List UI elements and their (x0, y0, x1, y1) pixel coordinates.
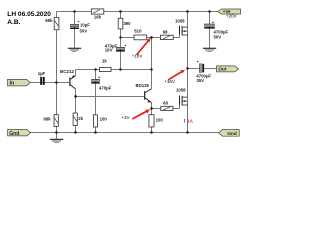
svg-text:In: In (10, 81, 15, 87)
mosfet 1058 lower (180, 96, 188, 106)
svg-text:LH 06.05.2020: LH 06.05.2020 (7, 11, 51, 18)
wire upper mosfet drain (187, 12, 189, 28)
svg-text:Out: Out (218, 67, 227, 73)
wire base row BD139 (76, 96, 145, 98)
svg-text:BC212: BC212 (60, 69, 75, 74)
resistor R 510 (134, 29, 147, 40)
svg-text:50V: 50V (214, 34, 222, 39)
tag Gnd left (8, 130, 31, 137)
wire upper mosfet bus and source (187, 27, 189, 68)
wire 1k row (76, 69, 152, 71)
svg-text:50V: 50V (80, 28, 88, 33)
svg-text:68k: 68k (45, 18, 53, 23)
svg-text:I: I (184, 120, 186, 125)
svg-text:68: 68 (163, 29, 168, 34)
wire 10uF branch (74, 12, 76, 48)
annotation arrow +18V (132, 38, 151, 58)
resistor R 100 driver (149, 115, 163, 127)
wire lower mosfet drain bus source (187, 69, 189, 133)
mosfet 1058 upper (180, 26, 188, 36)
svg-text:A.B.: A.B. (7, 19, 20, 26)
svg-text:1k: 1k (102, 58, 107, 63)
wire 510 68 gate row (121, 37, 180, 39)
svg-text:+16V: +16V (164, 79, 175, 84)
resistor R 390 (118, 18, 131, 29)
tag Out (217, 66, 239, 73)
wire BC212 emitter up (75, 70, 77, 76)
svg-text:+20V: +20V (226, 13, 237, 18)
wire input row (30, 82, 70, 84)
wire ground rail (30, 132, 218, 134)
svg-text:510: 510 (134, 29, 142, 34)
wire emitter gate row (152, 108, 180, 110)
svg-text:2k: 2k (78, 116, 83, 121)
resistor R 1k (100, 58, 112, 71)
resistor R 68k bottom (44, 115, 59, 127)
wire mosfet gate riser upper (179, 35, 181, 38)
wire BD139 emitter down (151, 103, 153, 133)
wire feedback vertical (95, 70, 97, 133)
junction dots (55, 10, 210, 133)
svg-text:1058: 1058 (175, 18, 185, 23)
svg-text:10µF: 10µF (80, 22, 90, 27)
ground symbol on rail (50, 139, 63, 143)
wire top rail (57, 11, 219, 13)
capacitor 4700uF 50V (204, 19, 228, 39)
wire ground stub left (56, 133, 58, 139)
capacitor 4700uF 35V output (196, 59, 211, 83)
wire 470uF16V vertical (120, 38, 122, 70)
svg-text:390: 390 (123, 21, 131, 26)
annotation arrow +2V (122, 109, 151, 120)
tag +Ve (218, 9, 241, 14)
svg-text:+18V: +18V (132, 53, 143, 58)
ground under 4700uF (203, 48, 216, 52)
svg-text:BD139: BD139 (136, 83, 150, 88)
trimmer R 68 lower (161, 100, 173, 110)
trimmer R 2k (73, 113, 83, 126)
transistor BD139 (136, 83, 152, 103)
svg-text:1A: 1A (187, 119, 194, 125)
annotation arrow +16V (164, 70, 185, 84)
wire driver collector vertical (151, 38, 153, 89)
tag In (8, 79, 31, 86)
svg-text:35V: 35V (196, 78, 204, 83)
capacitor 10uF 50V (70, 19, 90, 33)
svg-text:16V: 16V (105, 48, 113, 53)
svg-text:68k: 68k (44, 116, 52, 121)
svg-text:1058: 1058 (176, 88, 186, 93)
resistor R 100 feedback (93, 115, 107, 127)
wire 4700uF50V branch (209, 12, 211, 48)
tag Gnd right (219, 130, 240, 138)
svg-text:+2V: +2V (122, 115, 130, 120)
trimmer R 16k (91, 9, 104, 19)
svg-text:Gnd: Gnd (227, 131, 237, 137)
wire mosfet gate riser lower (179, 105, 181, 109)
ground under 10uF (68, 48, 81, 52)
svg-text:Gnd: Gnd (9, 131, 19, 137)
svg-text:16k: 16k (94, 14, 102, 19)
svg-text:68: 68 (163, 100, 168, 105)
capacitor 470uF feedback (91, 75, 111, 91)
transistor BC212 (60, 69, 76, 89)
capacitor 470uF 16V (105, 43, 127, 53)
svg-text:470µF: 470µF (99, 85, 112, 90)
wire left vertical bias (56, 12, 58, 133)
capacitor 1uF input (38, 71, 46, 85)
wire BC212 collector down (75, 89, 77, 97)
svg-text:100: 100 (156, 117, 164, 122)
wire output row (188, 68, 217, 70)
svg-text:100: 100 (100, 116, 108, 121)
trimmer R 68 upper (161, 29, 174, 39)
resistor R 68k top (45, 18, 59, 30)
wire 390 branch (120, 12, 122, 38)
wire 2k branch (75, 97, 77, 133)
svg-text:1µF: 1µF (38, 71, 46, 76)
